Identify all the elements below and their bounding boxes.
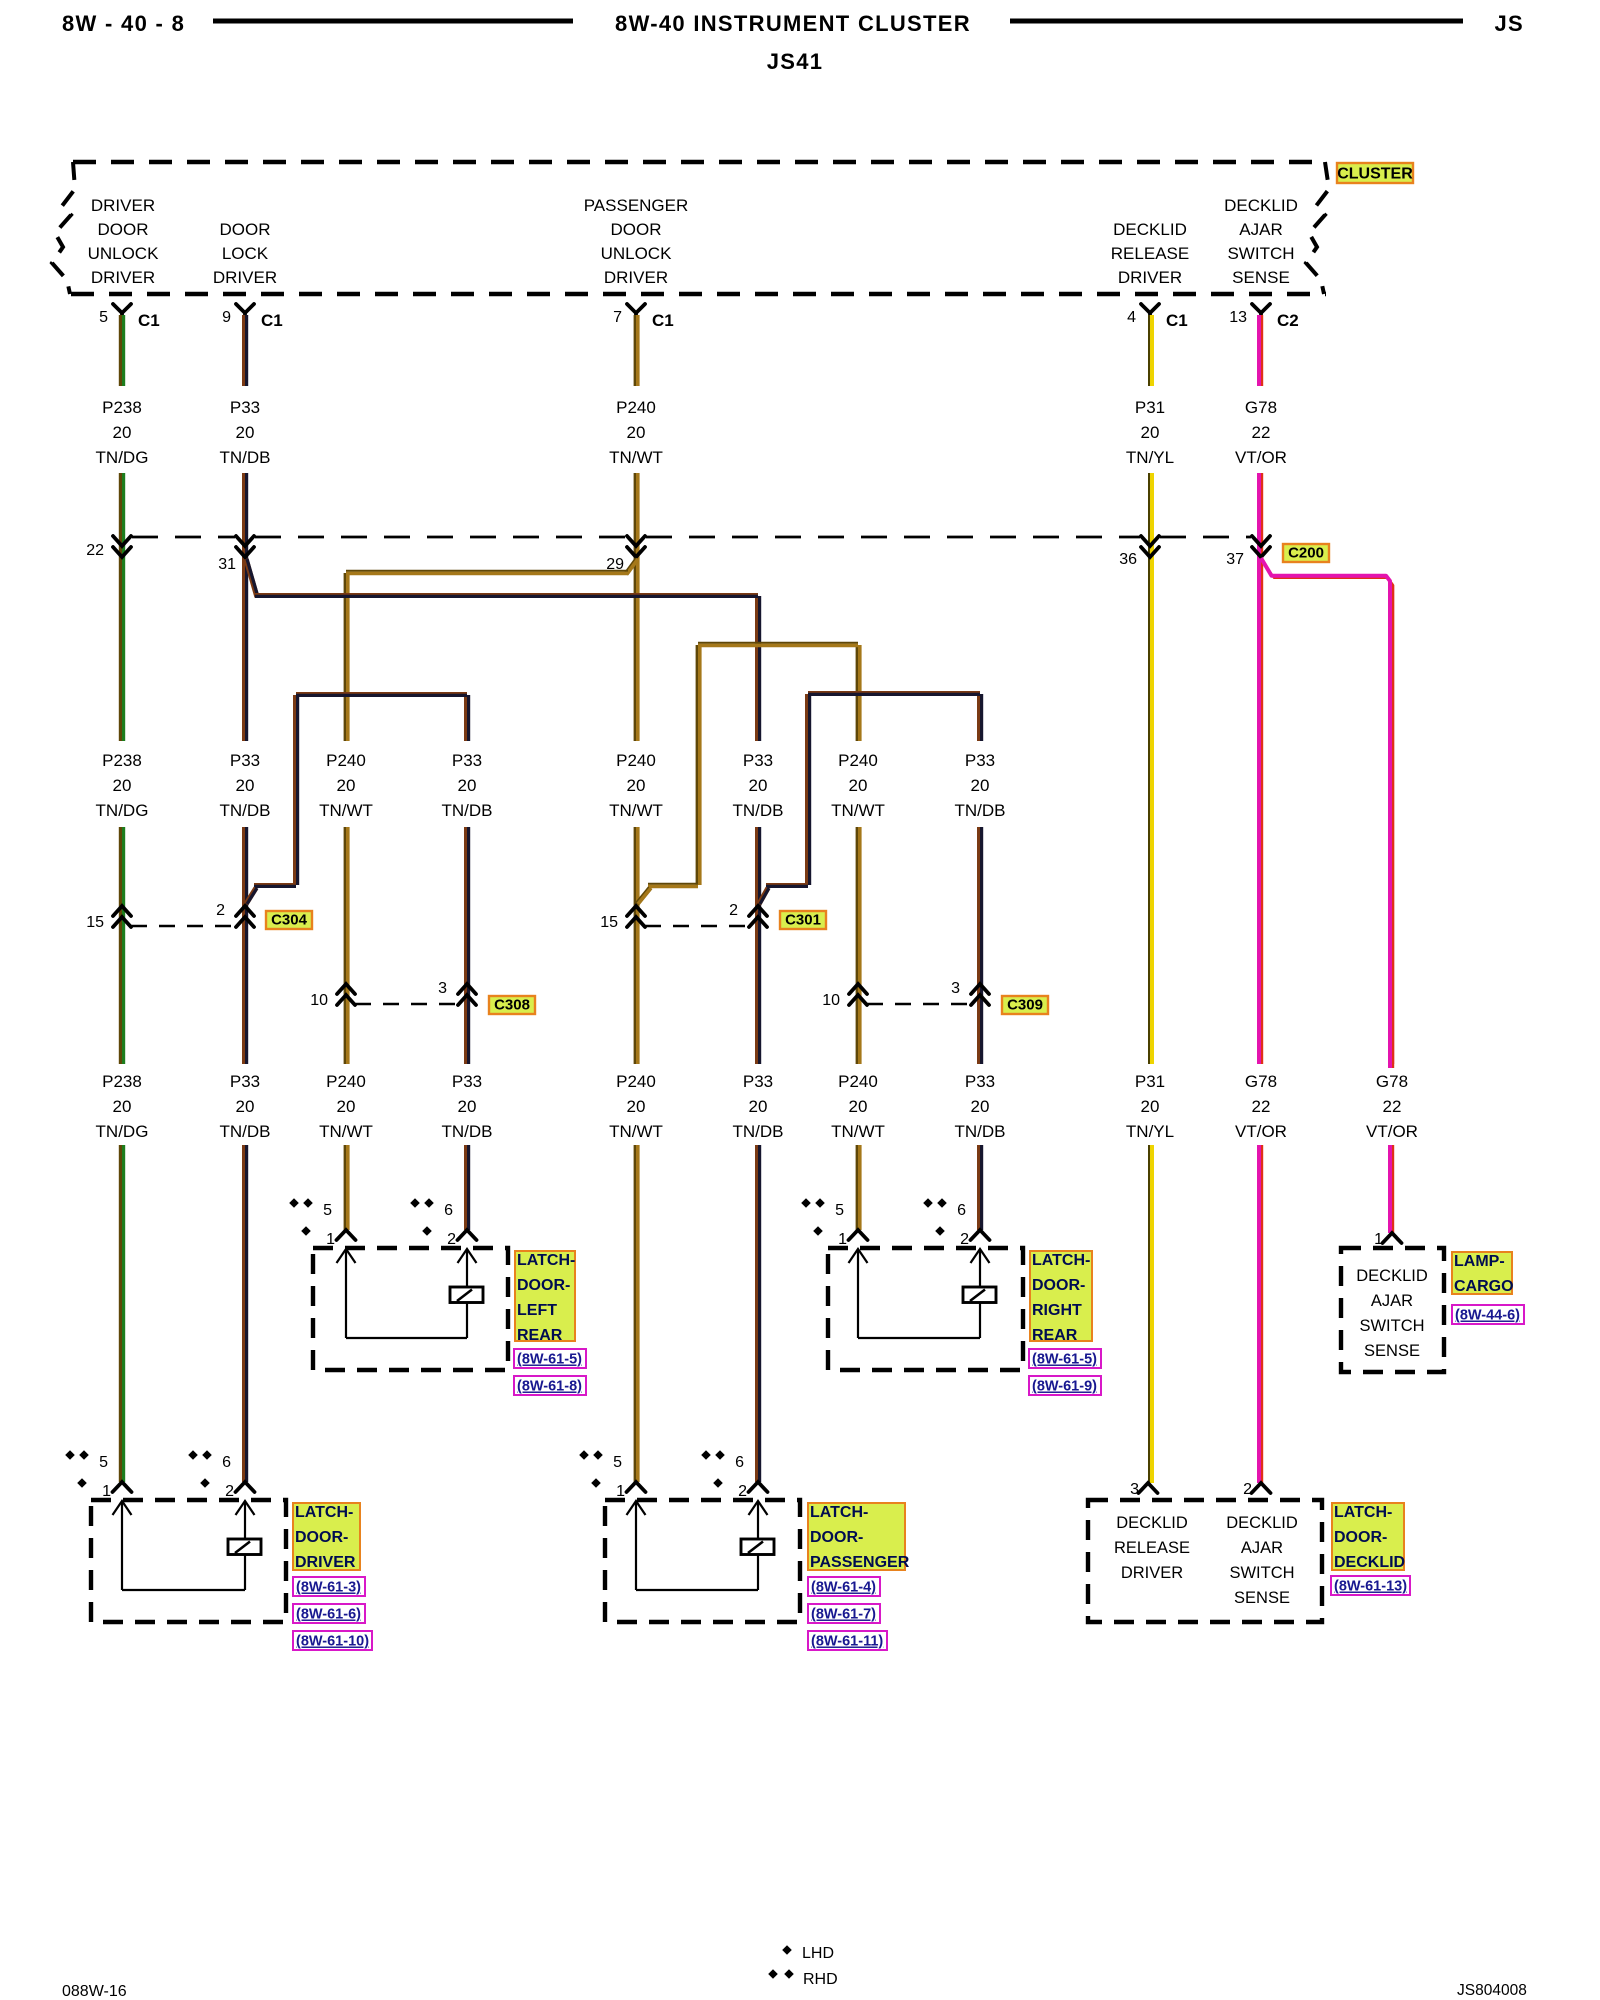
svg-text:2: 2 [216, 902, 225, 919]
svg-text:TN/DB: TN/DB [220, 448, 271, 467]
svg-text:TN/DG: TN/DG [96, 448, 149, 467]
svg-text:P33: P33 [230, 398, 260, 417]
svg-text:20: 20 [849, 776, 868, 795]
svg-text:C1: C1 [652, 311, 674, 330]
svg-text:G78: G78 [1376, 1072, 1408, 1091]
svg-text:UNLOCK: UNLOCK [601, 244, 673, 263]
svg-text:15: 15 [86, 914, 104, 931]
svg-text:SENSE: SENSE [1232, 268, 1290, 287]
svg-text:CARGO: CARGO [1454, 1278, 1514, 1295]
svg-text:P33: P33 [452, 1072, 482, 1091]
svg-text:P33: P33 [230, 751, 260, 770]
svg-text:20: 20 [337, 1097, 356, 1116]
svg-text:3: 3 [951, 980, 960, 997]
svg-text:VT/OR: VT/OR [1366, 1122, 1418, 1141]
svg-text:(8W-61-10): (8W-61-10) [296, 1634, 369, 1650]
svg-text:9: 9 [222, 309, 231, 326]
svg-text:TN/WT: TN/WT [831, 801, 885, 820]
svg-text:DECKLID: DECKLID [1224, 196, 1298, 215]
svg-text:P33: P33 [743, 751, 773, 770]
svg-text:TN/WT: TN/WT [609, 1122, 663, 1141]
svg-text:TN/DB: TN/DB [955, 801, 1006, 820]
svg-text:RELEASE: RELEASE [1114, 1539, 1190, 1557]
svg-text:DRIVER: DRIVER [1118, 268, 1182, 287]
svg-text:TN/DB: TN/DB [733, 1122, 784, 1141]
svg-text:C304: C304 [271, 912, 308, 929]
svg-text:20: 20 [113, 1097, 132, 1116]
svg-text:37: 37 [1226, 551, 1244, 568]
svg-text:TN/DG: TN/DG [96, 1122, 149, 1141]
svg-text:C1: C1 [138, 311, 160, 330]
svg-text:1: 1 [838, 1231, 847, 1248]
svg-text:P31: P31 [1135, 398, 1165, 417]
svg-text:20: 20 [236, 1097, 255, 1116]
svg-text:DECKLID: DECKLID [1334, 1554, 1405, 1571]
svg-text:DOOR: DOOR [220, 220, 271, 239]
svg-text:P33: P33 [452, 751, 482, 770]
svg-text:(8W-61-11): (8W-61-11) [811, 1634, 883, 1650]
svg-text:LATCH-: LATCH- [1334, 1504, 1392, 1521]
svg-text:SWITCH: SWITCH [1227, 244, 1294, 263]
svg-text:1: 1 [102, 1483, 111, 1500]
svg-text:P238: P238 [102, 751, 142, 770]
svg-text:P240: P240 [616, 398, 656, 417]
svg-text:TN/WT: TN/WT [319, 801, 373, 820]
svg-text:DOOR-: DOOR- [810, 1529, 863, 1546]
svg-text:P240: P240 [326, 751, 366, 770]
svg-text:G78: G78 [1245, 1072, 1277, 1091]
svg-text:AJAR: AJAR [1371, 1292, 1413, 1310]
svg-text:LOCK: LOCK [222, 244, 269, 263]
svg-text:DECKLID: DECKLID [1116, 1514, 1188, 1532]
svg-text:DRIVER: DRIVER [604, 268, 668, 287]
svg-text:SENSE: SENSE [1234, 1589, 1290, 1607]
svg-text:P238: P238 [102, 1072, 142, 1091]
svg-text:5: 5 [99, 309, 108, 326]
svg-text:C1: C1 [1166, 311, 1188, 330]
svg-text:22: 22 [1252, 1097, 1271, 1116]
svg-text:P31: P31 [1135, 1072, 1165, 1091]
svg-text:TN/WT: TN/WT [609, 801, 663, 820]
svg-text:20: 20 [849, 1097, 868, 1116]
svg-text:20: 20 [337, 776, 356, 795]
svg-text:20: 20 [749, 1097, 768, 1116]
svg-text:DOOR-: DOOR- [1334, 1529, 1387, 1546]
svg-text:20: 20 [627, 776, 646, 795]
svg-text:TN/DB: TN/DB [220, 801, 271, 820]
svg-text:P238: P238 [102, 398, 142, 417]
svg-text:(8W-61-5): (8W-61-5) [517, 1352, 582, 1368]
svg-text:G78: G78 [1245, 398, 1277, 417]
svg-text:UNLOCK: UNLOCK [88, 244, 160, 263]
svg-text:TN/WT: TN/WT [831, 1122, 885, 1141]
svg-text:1: 1 [1374, 1231, 1383, 1248]
svg-text:(8W-44-6): (8W-44-6) [1455, 1308, 1520, 1324]
svg-text:LATCH-: LATCH- [517, 1252, 575, 1269]
svg-text:PASSENGER: PASSENGER [810, 1554, 910, 1571]
svg-text:20: 20 [627, 423, 646, 442]
svg-text:DOOR: DOOR [98, 220, 149, 239]
svg-text:6: 6 [444, 1202, 453, 1219]
svg-text:DOOR: DOOR [611, 220, 662, 239]
svg-text:10: 10 [310, 992, 328, 1009]
svg-text:2: 2 [447, 1231, 456, 1248]
svg-text:3: 3 [438, 980, 447, 997]
svg-text:7: 7 [613, 309, 622, 326]
svg-text:AJAR: AJAR [1241, 1539, 1283, 1557]
svg-text:(8W-61-6): (8W-61-6) [296, 1607, 361, 1623]
svg-text:TN/DB: TN/DB [442, 1122, 493, 1141]
svg-text:TN/YL: TN/YL [1126, 448, 1174, 467]
svg-text:15: 15 [600, 914, 618, 931]
svg-text:20: 20 [1141, 423, 1160, 442]
svg-text:20: 20 [236, 776, 255, 795]
svg-text:TN/WT: TN/WT [609, 448, 663, 467]
svg-text:CLUSTER: CLUSTER [1337, 166, 1413, 183]
svg-text:TN/DB: TN/DB [733, 801, 784, 820]
svg-text:5: 5 [323, 1202, 332, 1219]
svg-text:C1: C1 [261, 311, 283, 330]
svg-text:3: 3 [1130, 1481, 1139, 1498]
svg-text:2: 2 [960, 1231, 969, 1248]
svg-text:P240: P240 [326, 1072, 366, 1091]
svg-text:DOOR-: DOOR- [1032, 1277, 1085, 1294]
svg-text:31: 31 [218, 556, 236, 573]
svg-text:SWITCH: SWITCH [1359, 1317, 1424, 1335]
svg-text:VT/OR: VT/OR [1235, 448, 1287, 467]
svg-text:2: 2 [729, 902, 738, 919]
svg-text:5: 5 [613, 1454, 622, 1471]
svg-text:20: 20 [971, 776, 990, 795]
svg-text:AJAR: AJAR [1239, 220, 1282, 239]
svg-text:LAMP-: LAMP- [1454, 1253, 1505, 1270]
svg-text:TN/WT: TN/WT [319, 1122, 373, 1141]
svg-text:REAR: REAR [517, 1327, 563, 1344]
svg-text:TN/YL: TN/YL [1126, 1122, 1174, 1141]
svg-text:C309: C309 [1007, 997, 1043, 1014]
svg-text:TN/DG: TN/DG [96, 801, 149, 820]
svg-text:LEFT: LEFT [517, 1302, 557, 1319]
svg-text:JS804008: JS804008 [1457, 1982, 1527, 1999]
svg-text:JS: JS [1494, 11, 1524, 36]
svg-text:DOOR-: DOOR- [517, 1277, 570, 1294]
svg-text:6: 6 [222, 1454, 231, 1471]
svg-text:TN/DB: TN/DB [220, 1122, 271, 1141]
svg-text:JS41: JS41 [767, 49, 824, 74]
svg-text:36: 36 [1119, 551, 1137, 568]
svg-text:P33: P33 [743, 1072, 773, 1091]
svg-text:P33: P33 [230, 1072, 260, 1091]
svg-text:088W-16: 088W-16 [62, 1983, 127, 2000]
svg-text:C2: C2 [1277, 311, 1299, 330]
svg-text:DRIVER: DRIVER [295, 1554, 356, 1571]
svg-text:C200: C200 [1288, 545, 1324, 562]
svg-text:P240: P240 [616, 1072, 656, 1091]
svg-text:20: 20 [1141, 1097, 1160, 1116]
svg-text:LHD: LHD [802, 1945, 834, 1962]
svg-text:20: 20 [113, 423, 132, 442]
svg-text:5: 5 [99, 1454, 108, 1471]
svg-text:DECKLID: DECKLID [1226, 1514, 1298, 1532]
svg-text:(8W-61-13): (8W-61-13) [1334, 1579, 1407, 1595]
svg-text:P240: P240 [838, 751, 878, 770]
svg-text:LATCH-: LATCH- [810, 1504, 868, 1521]
svg-text:1: 1 [616, 1483, 625, 1500]
svg-text:20: 20 [458, 776, 477, 795]
svg-text:(8W-61-4): (8W-61-4) [811, 1580, 876, 1596]
svg-text:DRIVER: DRIVER [1121, 1564, 1183, 1582]
svg-text:P33: P33 [965, 1072, 995, 1091]
svg-text:20: 20 [971, 1097, 990, 1116]
svg-text:8W-40 INSTRUMENT CLUSTER: 8W-40 INSTRUMENT CLUSTER [615, 11, 971, 36]
svg-text:DRIVER: DRIVER [91, 196, 155, 215]
svg-text:VT/OR: VT/OR [1235, 1122, 1287, 1141]
svg-text:P240: P240 [838, 1072, 878, 1091]
svg-text:(8W-61-5): (8W-61-5) [1032, 1352, 1097, 1368]
svg-text:DECKLID: DECKLID [1113, 220, 1187, 239]
svg-text:13: 13 [1229, 309, 1247, 326]
svg-text:6: 6 [735, 1454, 744, 1471]
svg-text:DECKLID: DECKLID [1356, 1267, 1428, 1285]
svg-text:TN/DB: TN/DB [442, 801, 493, 820]
svg-text:(8W-61-7): (8W-61-7) [811, 1607, 876, 1623]
svg-text:(8W-61-3): (8W-61-3) [296, 1580, 361, 1596]
svg-text:6: 6 [957, 1202, 966, 1219]
svg-text:22: 22 [1252, 423, 1271, 442]
svg-text:PASSENGER: PASSENGER [584, 196, 689, 215]
svg-text:20: 20 [458, 1097, 477, 1116]
svg-text:20: 20 [236, 423, 255, 442]
svg-text:8W - 40 - 8: 8W - 40 - 8 [62, 11, 185, 36]
svg-text:4: 4 [1127, 309, 1136, 326]
svg-text:DOOR-: DOOR- [295, 1529, 348, 1546]
svg-text:LATCH-: LATCH- [1032, 1252, 1090, 1269]
svg-text:(8W-61-9): (8W-61-9) [1032, 1379, 1097, 1395]
svg-text:P33: P33 [965, 751, 995, 770]
svg-text:(8W-61-8): (8W-61-8) [517, 1379, 582, 1395]
svg-text:C301: C301 [785, 912, 821, 929]
svg-text:SENSE: SENSE [1364, 1342, 1420, 1360]
svg-text:22: 22 [1383, 1097, 1402, 1116]
svg-text:RIGHT: RIGHT [1032, 1302, 1082, 1319]
svg-text:10: 10 [822, 992, 840, 1009]
svg-text:SWITCH: SWITCH [1229, 1564, 1294, 1582]
svg-text:DRIVER: DRIVER [213, 268, 277, 287]
svg-text:20: 20 [749, 776, 768, 795]
svg-text:20: 20 [113, 776, 132, 795]
svg-text:TN/DB: TN/DB [955, 1122, 1006, 1141]
svg-text:2: 2 [1243, 1481, 1252, 1498]
svg-text:RHD: RHD [803, 1971, 838, 1988]
svg-text:5: 5 [835, 1202, 844, 1219]
svg-text:RELEASE: RELEASE [1111, 244, 1189, 263]
svg-text:2: 2 [225, 1483, 234, 1500]
svg-text:2: 2 [738, 1483, 747, 1500]
svg-text:LATCH-: LATCH- [295, 1504, 353, 1521]
svg-text:22: 22 [86, 542, 104, 559]
svg-text:1: 1 [326, 1231, 335, 1248]
svg-text:DRIVER: DRIVER [91, 268, 155, 287]
svg-text:P240: P240 [616, 751, 656, 770]
svg-text:REAR: REAR [1032, 1327, 1078, 1344]
svg-text:C308: C308 [494, 997, 530, 1014]
svg-text:20: 20 [627, 1097, 646, 1116]
